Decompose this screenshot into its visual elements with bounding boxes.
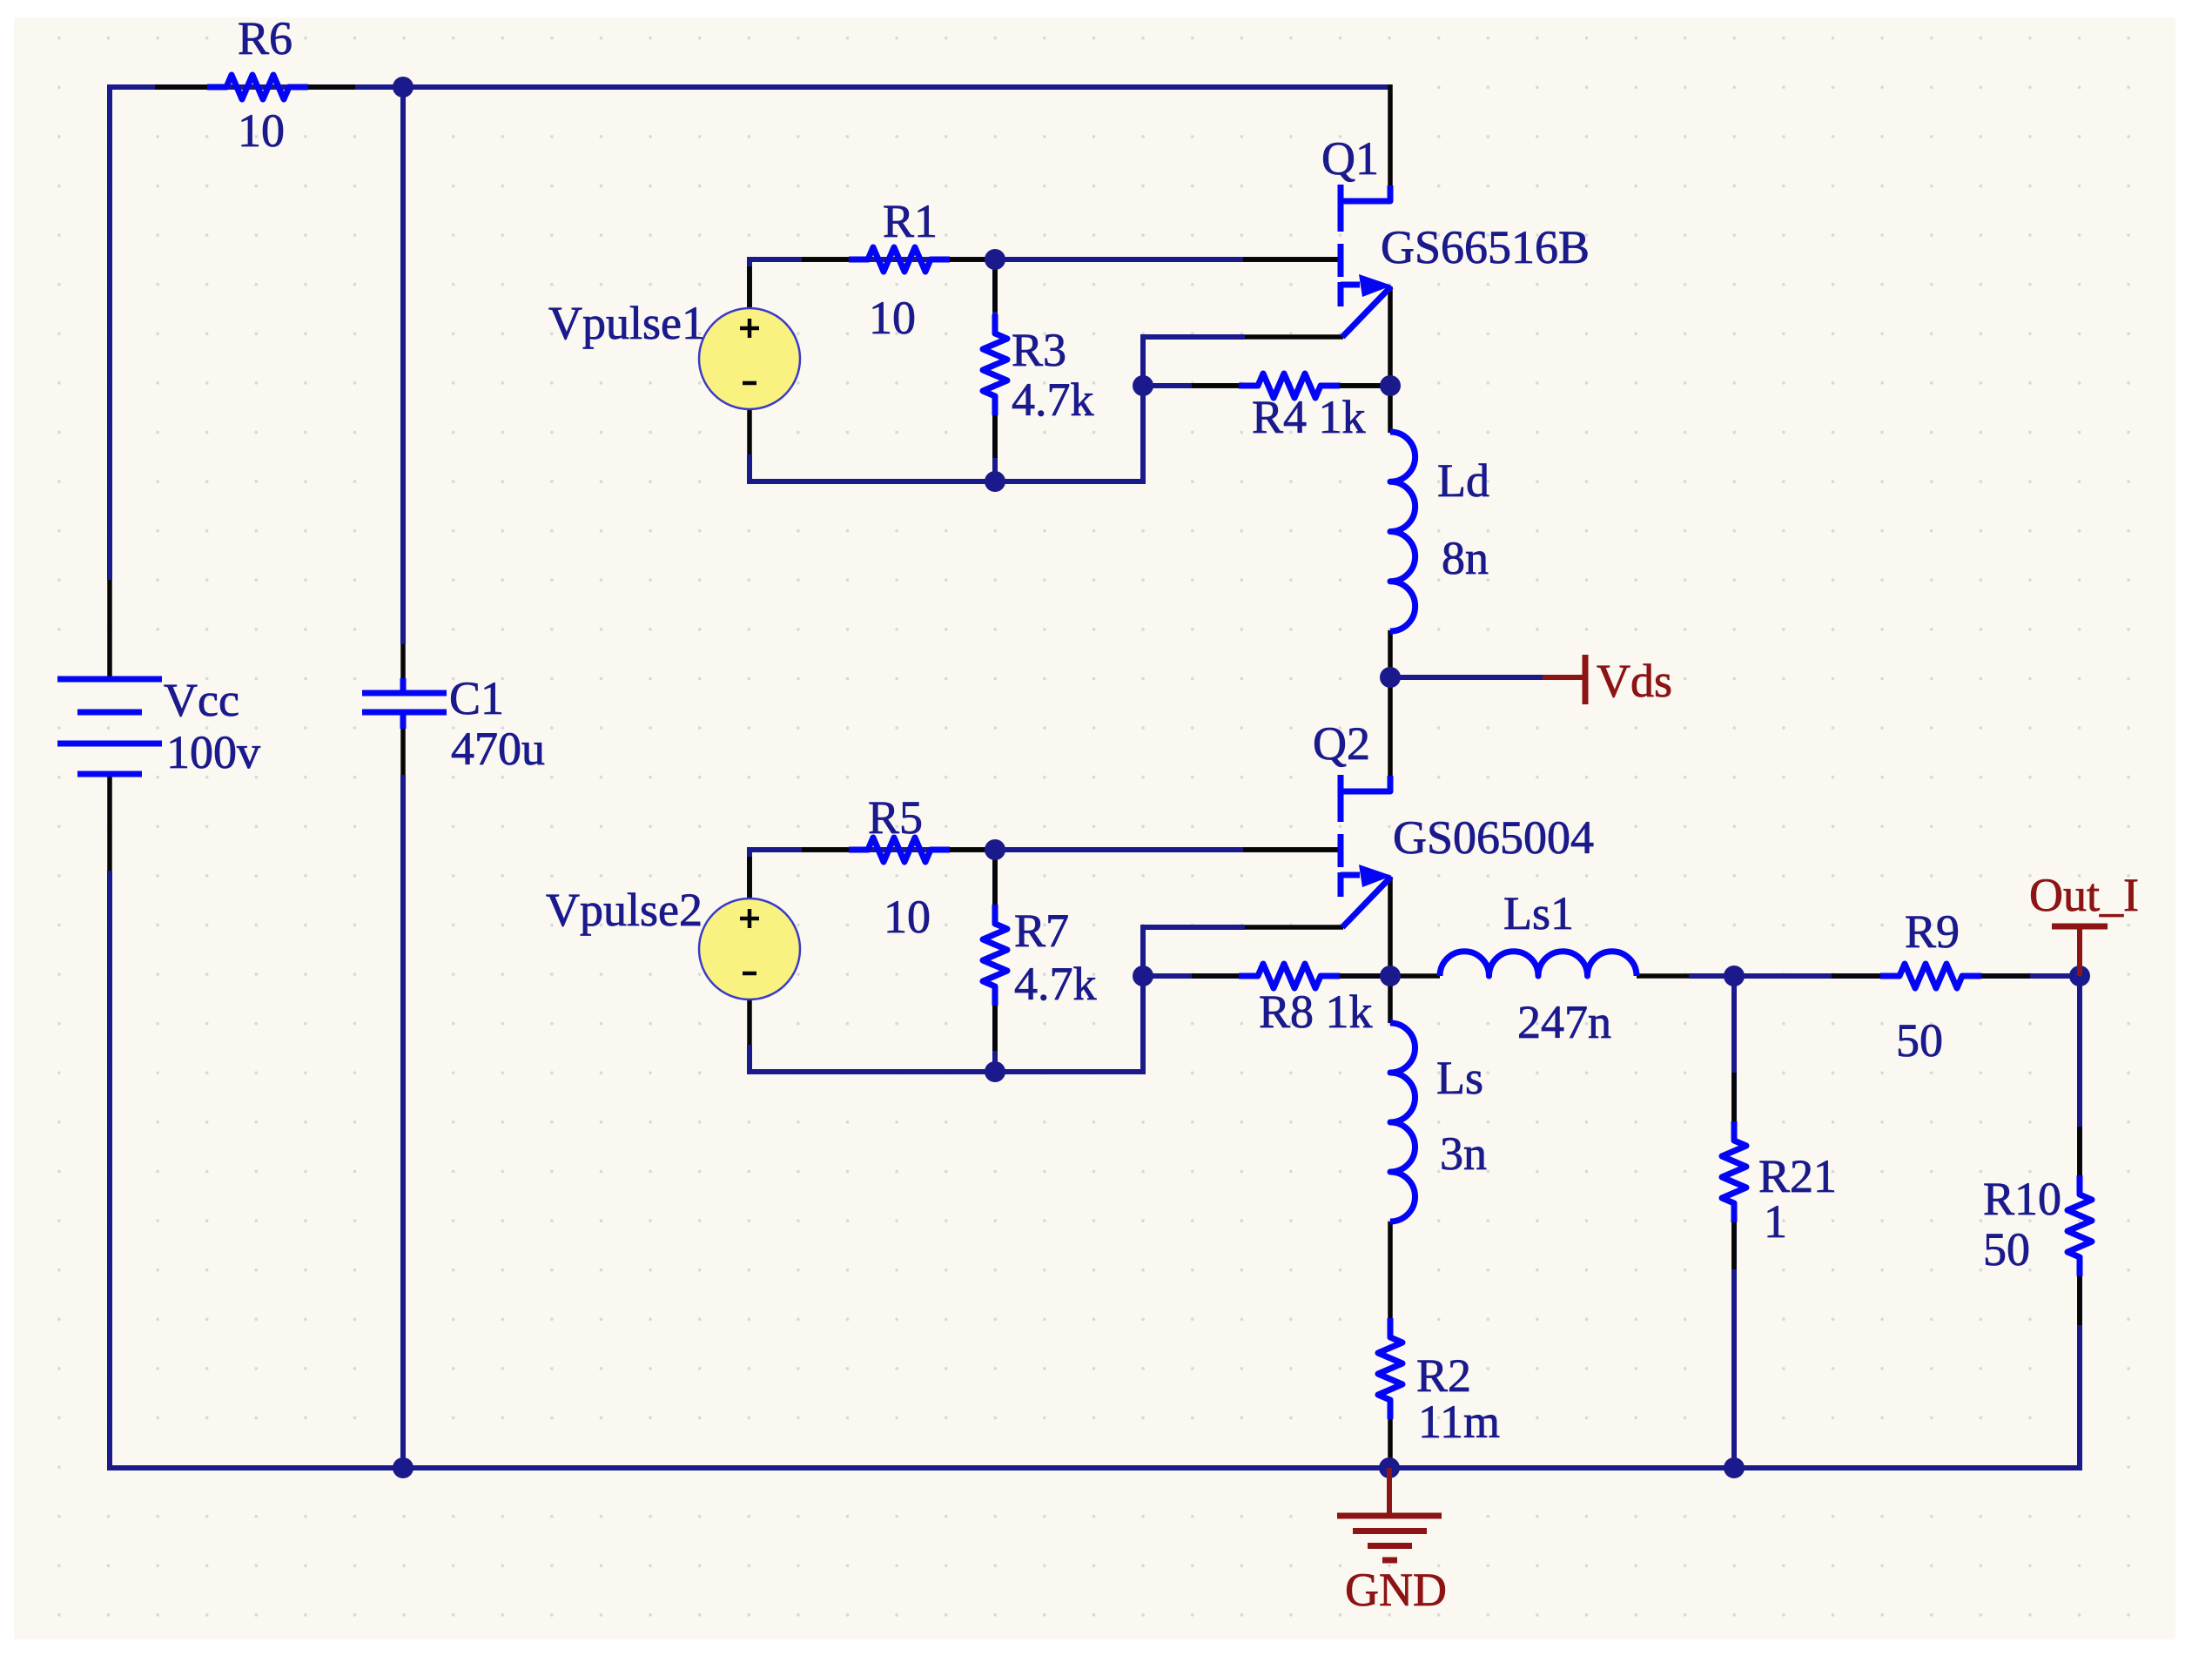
svg-text:8n: 8n — [1442, 532, 1489, 584]
svg-text:R1: R1 — [883, 195, 938, 247]
svg-text:Vpulse2: Vpulse2 — [546, 884, 703, 936]
svg-text:Vpulse1: Vpulse1 — [548, 297, 705, 349]
svg-text:10: 10 — [869, 292, 916, 344]
svg-text:R3: R3 — [1012, 324, 1066, 376]
svg-text:R10: R10 — [1983, 1173, 2061, 1225]
svg-text:Q1: Q1 — [1321, 132, 1379, 185]
svg-text:R7: R7 — [1014, 905, 1069, 957]
svg-text:3n: 3n — [1440, 1127, 1487, 1180]
svg-text:R8 1k: R8 1k — [1259, 986, 1373, 1038]
svg-text:470u: 470u — [451, 723, 545, 775]
svg-text:R9: R9 — [1905, 905, 1960, 958]
svg-text:Q2: Q2 — [1313, 717, 1370, 770]
svg-text:R6: R6 — [238, 12, 292, 64]
svg-text:10: 10 — [884, 891, 931, 943]
svg-text:1: 1 — [1764, 1195, 1787, 1248]
svg-text:Ls1: Ls1 — [1503, 887, 1574, 939]
svg-text:100v: 100v — [166, 726, 260, 778]
svg-text:50: 50 — [1896, 1014, 1943, 1067]
svg-text:R21: R21 — [1758, 1150, 1837, 1202]
svg-text:R5: R5 — [868, 791, 923, 844]
svg-text:GND: GND — [1345, 1564, 1447, 1616]
svg-text:R4 1k: R4 1k — [1252, 391, 1366, 443]
svg-text:GS66516B: GS66516B — [1381, 221, 1590, 273]
svg-text:Ld: Ld — [1437, 454, 1489, 507]
svg-text:Vcc: Vcc — [164, 674, 239, 726]
svg-text:Vds: Vds — [1597, 655, 1672, 707]
svg-text:GS065004: GS065004 — [1393, 811, 1594, 864]
svg-text:10: 10 — [238, 104, 285, 157]
svg-text:50: 50 — [1983, 1223, 2030, 1275]
svg-text:247n: 247n — [1517, 996, 1611, 1048]
svg-text:4.7k: 4.7k — [1012, 374, 1094, 426]
svg-text:R2: R2 — [1416, 1349, 1471, 1402]
svg-text:Out_I: Out_I — [2029, 869, 2139, 921]
svg-text:Ls: Ls — [1436, 1052, 1483, 1104]
svg-text:11m: 11m — [1418, 1396, 1500, 1448]
svg-text:C1: C1 — [449, 672, 504, 724]
svg-text:4.7k: 4.7k — [1014, 958, 1097, 1010]
